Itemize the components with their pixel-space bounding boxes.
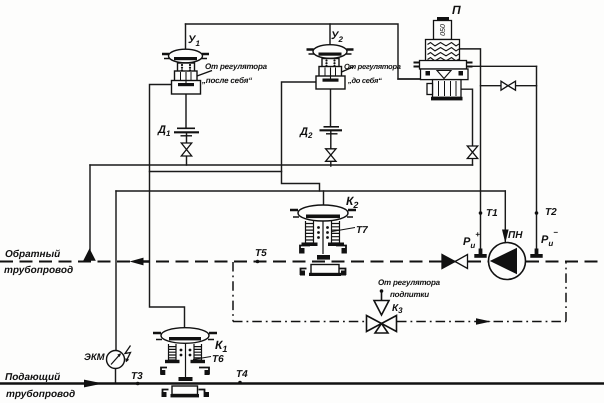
node Т5 dot xyxy=(256,260,260,264)
valve bowtie under Д2 xyxy=(326,149,336,162)
wire ЭКМ to supply pipe xyxy=(115,369,117,384)
valve bowtie П bypass horizontal xyxy=(501,81,516,90)
makeup valve К3 xyxy=(367,289,397,333)
wire pump top drop xyxy=(504,191,506,243)
supply pipe (solid) xyxy=(0,382,604,385)
svg-text:Т7: Т7 xyxy=(356,225,368,236)
svg-text:подпитки: подпитки xyxy=(390,290,429,299)
makeup line arrow xyxy=(476,318,491,324)
triangle injector on return pipe xyxy=(84,250,95,261)
svg-text:„до себя“: „до себя“ xyxy=(347,76,382,85)
control valve К2 xyxy=(290,205,356,276)
wire bus B left drop to ЭКМ xyxy=(115,191,117,351)
svg-text:Т3: Т3 xyxy=(131,371,143,382)
svg-text:трубопровод: трубопровод xyxy=(6,389,75,400)
wire П left port xyxy=(398,78,421,80)
pilot regulator П xyxy=(414,17,473,100)
wire Д1 to bowtie to bus A xyxy=(186,133,188,166)
wire К2 drop xyxy=(323,191,325,206)
svg-text:Подающий: Подающий xyxy=(5,372,60,383)
leader Т6 xyxy=(193,357,211,360)
svg-text:„после себя“: „после себя“ xyxy=(201,76,252,85)
svg-text:Т5: Т5 xyxy=(255,248,267,259)
wire Д2 stem xyxy=(330,89,332,127)
valve half-filled on return pipe xyxy=(442,255,468,269)
leader Т7 xyxy=(332,228,355,232)
svg-text:От регулятора: От регулятора xyxy=(344,62,401,71)
pump ПН xyxy=(489,230,526,280)
return pipe (dashed) xyxy=(0,261,604,263)
valve bowtie under Д1 xyxy=(181,143,191,156)
svg-text:Обратный: Обратный xyxy=(5,249,60,260)
control valve К1 xyxy=(153,328,217,398)
wire bowtie bypass line xyxy=(481,85,537,87)
bus B impulse line xyxy=(116,190,505,192)
svg-text:От регулятора: От регулятора xyxy=(378,278,441,287)
node Т3 dot xyxy=(136,382,140,386)
wire top link У1-У2-П xyxy=(186,24,421,79)
svg-text:Т6: Т6 xyxy=(212,354,224,365)
svg-text:Т1: Т1 xyxy=(486,208,498,219)
wire impulse line2 xyxy=(150,171,282,173)
svg-text:От регулятора: От регулятора xyxy=(205,62,268,71)
node Т1 dot xyxy=(479,211,483,215)
wire П bypass loop xyxy=(460,49,481,66)
wire У1 stem top xyxy=(185,24,187,49)
wire У2 left port loop xyxy=(282,82,320,191)
damper Д2 xyxy=(320,127,343,134)
pressure tap Рн- xyxy=(530,249,542,258)
node Т2 dot xyxy=(535,211,539,215)
svg-text:Т4: Т4 xyxy=(236,369,248,380)
pressure tap Рн+ xyxy=(474,249,486,258)
svg-text:ЭКМ: ЭКМ xyxy=(84,352,106,363)
wire П right main xyxy=(468,65,537,67)
svg-text:Т2: Т2 xyxy=(545,207,557,218)
wire Д1 stem xyxy=(185,94,187,128)
node Т4 dot xyxy=(238,381,242,385)
svg-text:П: П xyxy=(452,3,461,17)
damper Д1 xyxy=(174,128,199,136)
svg-text:ПН: ПН xyxy=(508,230,523,241)
manometer ЭКМ xyxy=(107,346,131,369)
svg-text:трубопровод: трубопровод xyxy=(4,265,73,276)
wire У2 stem top xyxy=(329,24,331,45)
wire Т2 vertical xyxy=(536,66,538,249)
return pipe left arrow xyxy=(130,258,151,266)
regulator У2 xyxy=(307,45,355,89)
wire Т1 vertical xyxy=(480,66,482,249)
wire П bottom right to bus A xyxy=(460,89,473,165)
wire Д2 to bowtie to bus A xyxy=(330,131,332,167)
makeup dash-dot line xyxy=(233,262,566,322)
wire bus A left drop to return pipe xyxy=(89,165,91,250)
regulator У1 xyxy=(162,49,212,94)
bus A impulse line xyxy=(90,164,473,166)
wire У1 left port down to К1 xyxy=(150,85,185,328)
supply pipe arrow xyxy=(84,380,103,388)
valve bowtie under П xyxy=(467,146,477,159)
svg-text:050: 050 xyxy=(440,24,447,36)
